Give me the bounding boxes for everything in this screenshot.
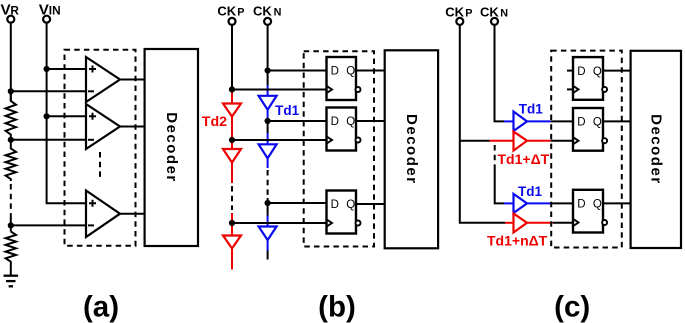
wire CKN vertical (top black) [267,25,269,86]
wire blue segment into buffer 2 [504,202,514,204]
svg-text:Q: Q [593,117,602,129]
wire VIN to comp1 + [47,68,86,70]
wire CKN lower branch corner to blue buffer 2 [495,168,504,203]
wire red segment into buffer 1 [490,140,514,142]
wire VR vertical [10,23,12,101]
flip-flop FF1 (c) [573,108,607,151]
wire blue buffer 2 output [527,202,551,204]
svg-text:Decoder: Decoder [403,114,420,185]
flip-flop FF2 (b) [327,108,361,151]
delay buffer Td2 stage2 (red) [223,149,241,163]
node junction VIN/comp1 [44,66,50,72]
wire FF1 Q to decoder (c) [603,120,631,122]
svg-text:D: D [331,66,339,78]
decoder (c) [631,51,681,248]
svg-text:Decoder: Decoder [163,112,180,183]
op-amp comparator A1 [86,57,120,102]
wire CKN blue below stage2 [267,158,269,168]
svg-text:Q: Q [346,116,355,128]
svg-text:Q: Q [593,66,602,78]
node junction CKN/DFF3 [265,200,271,206]
wire dashed omitted comparators [99,152,101,180]
wire CKN tail black end [267,251,269,260]
resistor R1 [6,91,16,140]
wire CKP vertical (top black) [231,25,233,89]
svg-text:Td1: Td1 [518,184,542,199]
wire red buffer 1 output black to FF1 clock [551,140,573,142]
node junction CKN/DFF1 [265,67,271,73]
svg-text:D: D [331,199,339,211]
node junction ladder/comp2 [8,137,14,143]
wire CKN blue tail [267,240,269,251]
node junction CKP/DFF2 [229,137,235,143]
dashed box (b) flip-flop bank [304,51,374,246]
wire CKP red below stage2 [231,163,233,184]
svg-text:(b): (b) [318,290,356,323]
svg-text:Td1: Td1 [519,102,543,117]
wire CKP red tail [231,249,233,270]
wire CKN dashed continuation [494,145,496,168]
wire red buffer 1 output [527,140,551,142]
wire CKN blue segment to delay 3 [267,216,269,227]
wire ladder tap to comp3 - [11,224,86,226]
svg-text:Decoder: Decoder [647,114,664,185]
delay buffer Td1 stage1 (blue) [259,96,277,110]
delay buffer Td1 upper (blue) [514,112,528,132]
svg-text:D: D [577,66,585,78]
node VR [1,1,20,22]
wire CKP black dashed continuation [231,186,233,210]
wire CKP red segment to delay 3 [231,213,233,236]
node CKN (c) [480,5,508,25]
wire blue segment into buffer 1 [504,120,514,122]
ground [4,276,19,287]
svg-text:Td1+ΔT: Td1+ΔT [498,151,550,167]
node CKP [217,3,244,25]
wire CKN blue segment below delay 1 [267,110,269,119]
delay buffer Td1 lower (blue) [514,194,528,213]
op-amp comparator A2 [86,104,120,149]
wire blue buffer 1 output black to FF1 D [551,120,573,122]
wire red buffer 2 output black to FF2 clock [553,222,573,224]
wire CKN black segment through DFF2 tap [267,119,269,133]
wire CKN tap to DFF2 D [268,120,327,122]
node junction CKP/DFF1 [229,86,235,92]
svg-text:CK: CK [217,3,236,18]
resistor R3 [6,232,16,276]
wire blue buffer 1 output [527,120,551,122]
svg-text:Td1+nΔT: Td1+nΔT [487,232,548,248]
delay buffer Td1+dT (red) [514,132,528,151]
flip-flop FF3 (b) [327,191,361,234]
wire red segment into buffer 2 [505,222,514,224]
wire comp2 output to decoder [120,126,145,128]
wire red buffer 2 output [527,222,553,224]
wire comp1 output to decoder [120,79,145,81]
node junction ladder/comp3 [8,222,14,228]
node VIN [39,1,61,22]
wire ladder dashed continuation (omitted resistors) [10,184,12,219]
wire CKP tap to DFF2 clock [232,139,327,141]
svg-text:D: D [331,116,339,128]
flip-flop FF1 (b) [327,57,361,100]
wire CKP red segment to delay 1 [231,90,233,104]
wire CKN vertical corner to blue buffer 1 [495,25,505,121]
wire ladder tap to comp2 - [11,139,86,141]
dashed box (a) comparator bank [65,50,136,246]
delay buffer Td1 stage2 (blue) [259,144,277,158]
svg-text:CK: CK [253,3,272,18]
wire CKN black segment through DFF3 tap [267,198,269,216]
wire blue buffer 2 output black to FF2 D [551,202,573,204]
wire CKN black dashed continuation [267,170,269,195]
wire comp3 output to decoder [120,213,145,215]
svg-text:D: D [577,117,585,129]
wire VIN vertical down and corner to comp3 + [47,23,86,203]
svg-text:Td2: Td2 [202,114,227,130]
wire FF1 Q to decoder [356,70,385,72]
wire CKP tap to DFF1 clock [232,89,327,91]
wire CKN blue segment to delay 2 [267,133,269,144]
wire CKP vertical with corner to red buffer 2 [460,25,505,223]
wire CKN tap to DFF1 D [268,70,327,72]
wire CKP tap to red buffer 1 [460,140,490,142]
wire CKN tap to DFF3 D [268,202,327,204]
wire FF3 Q to decoder [356,203,385,205]
svg-text:Q: Q [593,199,602,211]
wire VR to comp1 - [11,90,86,92]
svg-text:Q: Q [346,199,355,211]
svg-text:N: N [500,8,508,20]
delay buffer Td1+ndT (red) [514,214,528,233]
svg-text:D: D [577,199,585,211]
wire FF2 Q to decoder [356,120,385,122]
wire CKP red segment between delays [231,117,233,150]
wire FF2 Q to decoder (c) [603,202,631,204]
svg-text:(a): (a) [83,290,119,323]
flip-flop FF0 (c) reference [567,57,607,100]
flip-flop FF2 (c) [573,190,607,233]
svg-text:Td1: Td1 [275,103,299,118]
delay buffer Td1 stage3 (blue) [259,227,277,241]
wire CKP tap to DFF3 clock [232,222,327,224]
node junction VR/comp1 [8,88,14,94]
delay buffer Td2 stage1 (red) [223,104,241,117]
svg-text:Q: Q [346,66,355,78]
wire ladder bottom node segment [10,219,12,232]
decoder (b) [385,50,438,248]
svg-text:P: P [237,6,244,18]
delay buffer Td2 stage3 (red) [223,236,241,249]
wire VIN to comp2 + [47,115,86,117]
svg-text:N: N [274,6,282,18]
node junction CKN/DFF2 [265,118,271,124]
decoder (a) [145,49,198,246]
op-amp comparator A3 [86,191,120,238]
dashed box (c) flip-flop bank [551,51,622,248]
node CKP (c) [445,5,472,25]
wire CKN blue segment to delay 1 [267,86,269,96]
node CKN [253,3,282,25]
wire FF0 Q to decoder [603,70,631,72]
svg-text:P: P [465,8,472,20]
node junction CKP/DFF3 [229,220,235,226]
resistor R2 [6,140,16,181]
node junction VIN/comp2 [44,113,50,119]
svg-text:(c): (c) [554,290,590,323]
svg-text:IN: IN [49,3,61,17]
